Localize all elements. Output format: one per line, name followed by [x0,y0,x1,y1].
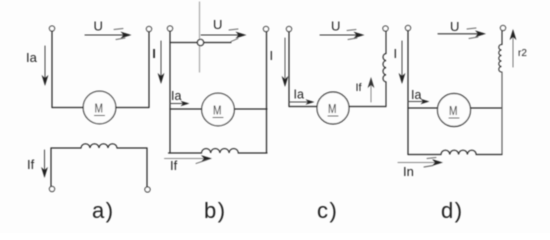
svg-text:U: U [213,17,222,32]
arrow U (c) [320,30,365,40]
wire (a) field left vertical [50,148,52,187]
inductor series winding (d) [441,150,476,154]
inductor field winding (c) vertical [383,54,386,82]
wire (d) right vertical lower [501,72,503,155]
arrow Ia (d) [408,99,430,105]
terminal (a) top-right [146,26,151,31]
svg-text:I: I [394,46,398,61]
svg-text:Ia: Ia [294,88,304,102]
svg-text:M: M [213,103,222,118]
inductor field winding (b) [202,149,239,153]
motor M (a) [83,91,116,124]
crosshair artifact (b) [199,2,201,72]
arrow I (b) left [158,41,165,84]
svg-text:M: M [449,103,458,118]
svg-text:Ia: Ia [26,50,38,65]
arrow If (b) [165,155,213,163]
svg-text:b): b) [204,198,227,223]
arrow U (a) [85,29,132,40]
wire (d) armature horizontal [408,107,502,109]
arrow Ia (c) [289,99,315,105]
wire (a) right vertical [148,32,150,108]
svg-text:If: If [356,82,363,94]
svg-text:U: U [450,19,459,34]
wire (b) left vertical [169,31,171,153]
terminal (d) top-left [405,25,410,30]
wire (b) bottom-right horizontal [238,152,267,154]
wire (a) armature horizontal [52,107,149,109]
wire (a) left vertical [51,31,53,107]
wire (d) right branch upper stub [501,31,503,45]
svg-text:a): a) [92,198,115,223]
wire (c) field branch upper [385,31,387,53]
wire (c) armature horizontal [289,106,386,108]
terminal (a) bottom-right [145,187,150,192]
arrow r2 (d) up [510,29,517,67]
terminal (c) top-right [383,26,388,31]
terminal (d) top-right [500,25,505,30]
svg-text:M: M [95,101,104,116]
svg-text:I: I [270,48,274,63]
wire (d) bottom-left horizontal [408,154,441,156]
motor M (b) [202,93,235,126]
arrow U (d) [438,28,486,39]
wire (a) field top-left horizontal [51,147,81,149]
wire (a) field right vertical [146,148,148,187]
svg-text:In: In [403,164,414,179]
terminal (a) top-left [49,26,54,31]
wire (c) field branch lower [385,82,387,107]
wire (b) bottom-left horizontal [169,152,202,154]
svg-text:U: U [331,19,340,34]
svg-text:I: I [152,46,156,61]
arrow hook on source wire (b) [231,39,238,42]
shunt winding (d) vertical wavy [499,45,502,73]
svg-text:If: If [27,157,35,172]
terminal (b) top-left [167,26,172,31]
arrow Ia (b) [170,101,190,107]
wire (b) right vertical [266,32,268,153]
wire (d) bottom-right horizontal [476,154,502,156]
wire (d) left vertical [407,31,409,155]
wire (a) field top-right horizontal [117,147,147,149]
svg-text:Ia: Ia [411,88,421,102]
arrow If (a) [41,150,48,178]
svg-text:d): d) [441,198,464,223]
terminal (c) top-left [286,26,291,31]
motor M (d) [438,94,471,127]
arrow I (d) [399,41,406,84]
svg-text:M: M [328,101,337,116]
wire (b) source horizontal [170,42,231,44]
svg-text:c): c) [317,198,338,223]
svg-text:U: U [94,19,103,34]
arrow In (d) [398,158,443,168]
wire (c) left vertical [288,32,290,107]
motor M (c) [317,92,349,124]
node junction terminal (b) [197,39,203,45]
arrow If (c) up [368,77,375,102]
svg-text:If: If [170,158,178,173]
svg-text:r2: r2 [518,48,527,59]
terminal (b) top-right [263,26,268,31]
terminal (a) bottom-left [49,186,54,191]
inductor field winding (a) [81,144,117,148]
arrow U (b) [201,29,247,38]
wire (b) armature horizontal [170,108,267,110]
arrow I (c) [282,38,289,87]
svg-text:Ia: Ia [171,89,181,103]
arrow Ia (a) [42,46,49,86]
